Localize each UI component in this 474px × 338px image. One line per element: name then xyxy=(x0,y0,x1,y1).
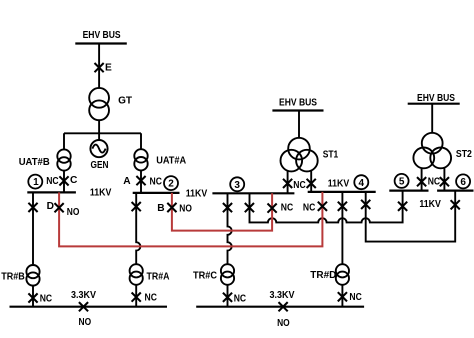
svg-text:GEN: GEN xyxy=(91,160,109,171)
svg-text:4: 4 xyxy=(359,178,365,189)
svg-text:3.3KV: 3.3KV xyxy=(270,290,295,301)
svg-text:EHV BUS: EHV BUS xyxy=(279,98,317,109)
svg-text:NC: NC xyxy=(234,294,247,305)
svg-text:NC: NC xyxy=(293,180,306,191)
svg-text:EHV BUS: EHV BUS xyxy=(83,30,121,41)
svg-text:11KV: 11KV xyxy=(419,199,441,210)
svg-text:UAT#A: UAT#A xyxy=(156,156,187,167)
svg-text:TR#D: TR#D xyxy=(310,270,336,281)
svg-text:UAT#B: UAT#B xyxy=(19,157,50,168)
svg-text:3: 3 xyxy=(234,180,240,191)
svg-text:2: 2 xyxy=(168,179,174,190)
svg-text:GT: GT xyxy=(118,95,133,106)
svg-text:NO: NO xyxy=(179,204,192,215)
svg-text:E: E xyxy=(105,63,112,74)
svg-text:5: 5 xyxy=(399,177,405,188)
svg-text:TR#C: TR#C xyxy=(193,271,218,282)
svg-text:C: C xyxy=(70,175,78,186)
svg-text:B: B xyxy=(157,203,164,214)
svg-text:NC: NC xyxy=(281,202,294,213)
svg-text:D: D xyxy=(47,201,54,212)
svg-text:NC: NC xyxy=(303,202,316,213)
svg-text:1: 1 xyxy=(33,177,39,188)
svg-text:11KV: 11KV xyxy=(186,189,208,200)
svg-text:NO: NO xyxy=(67,207,80,218)
svg-text:NO: NO xyxy=(79,317,92,328)
svg-text:11KV: 11KV xyxy=(328,178,350,189)
svg-text:EHV BUS: EHV BUS xyxy=(417,93,455,104)
svg-text:11KV: 11KV xyxy=(90,188,112,199)
svg-text:6: 6 xyxy=(460,177,466,188)
svg-text:3.3KV: 3.3KV xyxy=(71,290,96,301)
svg-text:ST1: ST1 xyxy=(323,150,339,161)
svg-text:NO: NO xyxy=(277,318,290,329)
svg-text:NC: NC xyxy=(40,294,53,305)
svg-text:NC: NC xyxy=(145,292,158,303)
svg-text:TR#B: TR#B xyxy=(1,272,25,283)
svg-text:TR#A: TR#A xyxy=(147,272,171,283)
svg-text:A: A xyxy=(123,176,131,187)
svg-text:NC: NC xyxy=(428,176,441,187)
svg-text:ST2: ST2 xyxy=(456,149,472,160)
svg-text:NC: NC xyxy=(46,176,59,187)
svg-text:NC: NC xyxy=(349,292,362,303)
svg-text:NC: NC xyxy=(150,177,163,188)
